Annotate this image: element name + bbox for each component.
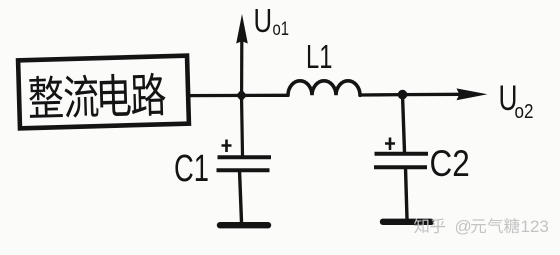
capacitor C1	[217, 95, 272, 222]
arrow Uo1	[240, 40, 243, 95]
svg-text:123: 123	[521, 217, 549, 236]
svg-text:o1: o1	[273, 18, 289, 39]
svg-text:C2: C2	[430, 144, 470, 185]
svg-text:L1: L1	[306, 39, 332, 76]
ground C2	[383, 219, 431, 225]
watermark 知乎 @元气糖123	[414, 217, 549, 236]
inductor L1	[288, 81, 360, 96]
svg-text:C1: C1	[174, 148, 209, 190]
capacitor C2	[374, 95, 428, 219]
plus C2	[385, 138, 395, 151]
rectifier block 整流电路	[18, 56, 189, 129]
wire	[187, 94, 288, 98]
node B	[398, 90, 408, 100]
ground C1	[220, 222, 268, 228]
wire	[360, 93, 403, 97]
svg-text:U: U	[254, 3, 273, 40]
plus C1	[222, 140, 232, 153]
svg-text:o2: o2	[515, 100, 534, 123]
node A	[236, 89, 247, 101]
svg-text:@: @	[455, 217, 472, 236]
arrow Uo2	[403, 93, 462, 97]
